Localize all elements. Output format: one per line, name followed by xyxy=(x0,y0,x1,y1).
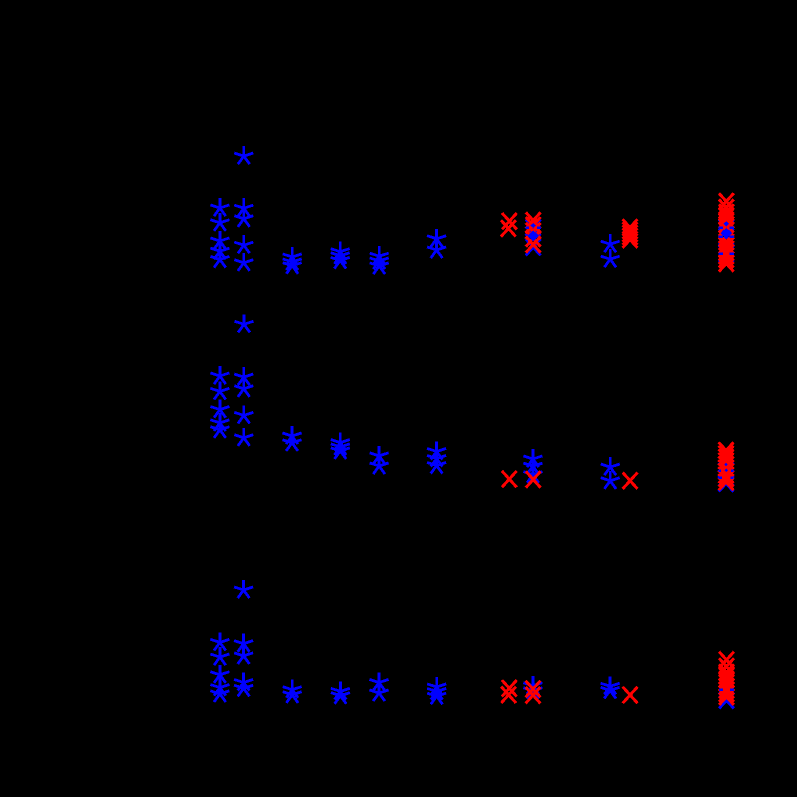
subplot1 mixed cluster x=533 blue x lower xyxy=(526,239,541,255)
subplot1 mixed cluster x=533 red xs xyxy=(526,212,541,246)
subplot2 blue star cluster x=533 xyxy=(523,449,542,483)
subplot1 right column blue x upper xyxy=(719,220,734,236)
subplot1 red x stack x=630 xyxy=(623,219,638,248)
subplot3 blue star cluster x=437 xyxy=(427,677,446,704)
subplot2 red x x=533 xyxy=(526,471,541,487)
subplot2 blue star column x=244 xyxy=(234,367,253,446)
subplot2 right column blue x mid xyxy=(719,470,734,486)
subplot3 red x x=630 xyxy=(623,687,638,703)
subplot3 red x pair x=509 xyxy=(501,680,517,703)
subplot1 mixed cluster x=533 blue x tips xyxy=(526,226,541,229)
subplot1 right column blue x tips xyxy=(719,227,734,256)
subplot3 blue star cluster x=340 xyxy=(331,681,350,703)
subplot3 right column blue x lower xyxy=(719,692,734,708)
subplot1 blue star cluster x=437 xyxy=(427,229,446,258)
subplot3 blue star column x=244 xyxy=(234,634,253,697)
subplot1 mixed cluster x=533 blue small diamond xyxy=(530,223,536,228)
subplot2 blue star outlier x=244 xyxy=(234,314,253,332)
subplot1 right column upper red xs x=726 xyxy=(719,193,734,238)
subplot1 blue star cluster x=379 xyxy=(370,246,389,274)
subplot2 red x x=630 xyxy=(623,473,638,489)
subplot1 mixed cluster x=533 red x lower xyxy=(526,236,541,252)
subplot1 right column blue diamond xyxy=(721,228,733,238)
subplot1 blue star column x=244 xyxy=(234,198,253,271)
subplot2 red x x=509 xyxy=(502,471,517,487)
subplot2 right column red xs x=726 xyxy=(719,442,734,490)
subplot2 blue star cluster x=340 xyxy=(331,433,350,459)
subplot1 blue star pair x=610 xyxy=(601,234,620,267)
subplot3 right column red xs x=726 xyxy=(719,652,734,705)
subplot2 right column blue x upper xyxy=(719,462,734,478)
subplot3 blue star pair x=533 xyxy=(523,676,542,699)
subplot1 right column blue x lower xyxy=(719,246,734,262)
subplot3 blue star outlier x=244 xyxy=(234,580,253,598)
subplot1 blue star cluster x=292 xyxy=(283,247,302,274)
subplot2 blue star cluster x=379 xyxy=(370,446,389,474)
subplot2 blue star pair x=610 xyxy=(601,457,620,489)
subplot1 blue star cluster x=340 xyxy=(331,242,350,269)
subplot3 right column blue x upper xyxy=(719,682,734,698)
subplot1 red x pair x=509 xyxy=(501,213,517,237)
subplot3 blue star cluster x=292 xyxy=(283,680,302,703)
subplot1 right column blue x mid xyxy=(719,229,734,245)
subplot2 blue star cluster x=292 xyxy=(282,426,301,451)
subplot1 right column lower red xs x=726 xyxy=(719,234,734,272)
subplot3 blue star pair x=610 xyxy=(601,676,620,698)
subplot2 right column blue x lower xyxy=(719,475,734,491)
subplot1 mixed cluster x=533 blue diamond xyxy=(527,230,539,241)
subplot1 blue star column x=220 xyxy=(210,198,229,268)
subplot3 blue star cluster x=379 xyxy=(369,673,388,702)
subplot2 right column blue dots xyxy=(724,463,728,472)
subplot2 blue star column x=220 xyxy=(210,366,229,438)
subplot3 right column blue x tips xyxy=(719,689,734,692)
subplot2 right column blue x tips xyxy=(719,469,734,479)
subplot1 right column blue small diamond xyxy=(724,221,730,226)
subplot1 mixed cluster x=533 blue x upper xyxy=(526,219,541,235)
subplot2 blue star cluster x=437 xyxy=(427,442,446,474)
subplot3 red x pair x=533 xyxy=(526,681,541,704)
subplot3 blue star column x=220 xyxy=(210,632,229,702)
subplot1 blue star outlier x=244 xyxy=(234,146,253,164)
